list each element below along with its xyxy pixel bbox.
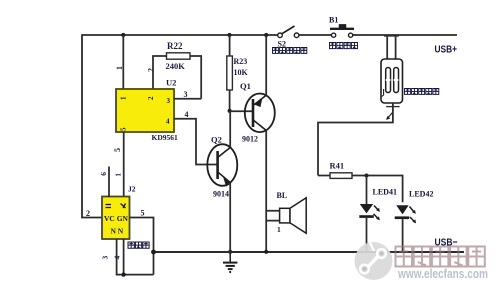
svg-text:5: 5 — [113, 148, 122, 152]
pin label 4 (relay bottom, rotated) — [113, 256, 122, 260]
pin label 4 inside U2 — [166, 118, 170, 126]
value label 10K — [234, 68, 249, 77]
wire Q1 emitter up to rail — [265, 35, 267, 95]
pin label 2 (relay left) — [86, 209, 90, 218]
svg-text:10K: 10K — [234, 68, 249, 77]
label USB+ — [435, 44, 458, 56]
pin label 1 (relay top, rotated) — [114, 173, 123, 177]
pushbutton B1 — [330, 24, 354, 37]
transistor Q2 9014 — [207, 144, 237, 186]
pin label 3 (relay bottom, rotated) — [101, 256, 110, 260]
node junction relay bottom — [121, 272, 125, 276]
svg-text:LED42: LED42 — [409, 190, 433, 199]
label VC GN inside relay — [104, 214, 129, 223]
speaker BL — [266, 198, 306, 234]
label U2 — [166, 78, 176, 88]
wire R22 right lead to U2 pin3 net — [190, 56, 201, 99]
pin label 3 inside U2 — [167, 97, 171, 105]
value label 9014 — [213, 190, 229, 199]
wire Q2 collector up to base node — [229, 111, 231, 148]
svg-text:5: 5 — [120, 127, 128, 131]
LED41 diode — [359, 176, 380, 252]
node junction R23 top — [227, 33, 231, 37]
wire relay pin5 to ground rail — [130, 218, 154, 275]
label R23 — [234, 57, 248, 66]
resistor R41 body — [318, 173, 367, 179]
lamp module inner bars — [382, 68, 399, 97]
wire U2 pin4 to Q2 base — [174, 119, 218, 165]
switch S2 contacts and blade — [278, 26, 299, 38]
svg-text:1: 1 — [114, 173, 123, 177]
label B1 mercury switch text (shuiyin kaiguan) — [330, 43, 358, 49]
svg-text:USB+: USB+ — [435, 44, 458, 56]
pin label 2 (U2 pin2, rotated) — [147, 68, 156, 72]
svg-text:9012: 9012 — [242, 135, 258, 144]
label N N inside relay — [111, 227, 124, 236]
label R22 — [167, 41, 183, 51]
svg-text:R41: R41 — [330, 161, 345, 171]
svg-text:R23: R23 — [234, 57, 248, 66]
pin label 5 (relay right) — [141, 209, 145, 218]
svg-text:2: 2 — [147, 68, 156, 72]
label Q2 — [211, 135, 222, 145]
pin label 1 (U2 pin1, rotated) — [115, 66, 124, 70]
svg-text:3: 3 — [167, 97, 171, 105]
svg-text:KD9561: KD9561 — [152, 133, 179, 142]
wire top supply rail — [82, 34, 457, 36]
svg-text:240K: 240K — [166, 61, 186, 71]
value label 240K — [166, 61, 186, 71]
label LED41 — [373, 188, 397, 197]
svg-text:1: 1 — [115, 66, 124, 70]
relay J2 body — [102, 197, 130, 240]
label BL — [277, 191, 288, 200]
svg-text:U2: U2 — [166, 78, 176, 88]
pin label 4 outside U2 — [185, 110, 189, 119]
svg-text:1: 1 — [277, 225, 281, 234]
pin label 1 inside U2 — [120, 96, 128, 100]
node junction speaker branch on rail — [264, 250, 268, 254]
LED42 diode — [395, 205, 416, 252]
svg-text:Q2: Q2 — [211, 135, 222, 145]
watermark text www.elecfans.com — [397, 267, 488, 281]
node junction R23 bottom / Q1 base / Q2 collector — [228, 109, 232, 113]
svg-text:2: 2 — [147, 96, 155, 100]
svg-text:B1: B1 — [329, 16, 338, 25]
wire to LED42 branch — [367, 176, 403, 203]
svg-text:R22: R22 — [167, 41, 183, 51]
svg-text:N N: N N — [111, 227, 124, 236]
label relay text (jidianqi) — [128, 242, 149, 248]
pin label 2 inside U2 — [147, 96, 155, 100]
pin marks inside relay top — [106, 204, 126, 209]
svg-text:BL: BL — [277, 191, 288, 200]
svg-text:1: 1 — [120, 96, 128, 100]
label S2 function text (baojing gongnengjian) — [273, 48, 307, 54]
wire U2 pin5 to relay J2 — [123, 132, 125, 197]
op-amp U2 IC KD9561 body — [116, 89, 174, 132]
svg-text:J2: J2 — [128, 185, 136, 194]
label B1 — [329, 16, 338, 25]
label R41 — [330, 161, 345, 171]
pin label 5 inside U2 — [120, 127, 128, 131]
svg-text:5: 5 — [141, 209, 145, 218]
svg-text:4: 4 — [185, 110, 189, 119]
wire R22 left lead to U2 pin2 — [153, 56, 167, 89]
label S2 — [278, 40, 286, 49]
wire Q1 base — [230, 110, 253, 112]
node junction rail start — [151, 250, 156, 255]
svg-text:VC GN: VC GN — [104, 214, 129, 223]
wire bottom ground rail — [153, 251, 464, 253]
svg-text:4: 4 — [113, 256, 122, 260]
lamp module leads from rail — [384, 35, 399, 59]
svg-text:3: 3 — [184, 90, 188, 99]
wire left border — [82, 34, 102, 217]
resistor R23 body — [227, 35, 233, 111]
watermark text dianzifashaoyou — [396, 247, 485, 267]
lamp module body — [381, 59, 403, 103]
svg-text:3: 3 — [101, 256, 110, 260]
node junction R41 / LED41 — [365, 174, 369, 178]
wire lamp bottom lead with connector tick — [318, 103, 400, 176]
svg-text:9014: 9014 — [213, 190, 229, 199]
wire Q1 collector down to speaker and ground rail — [265, 130, 267, 251]
svg-text:4: 4 — [166, 118, 170, 126]
svg-text:Q1: Q1 — [240, 81, 251, 91]
svg-text:6: 6 — [99, 172, 108, 176]
wire U2 pin1 drop — [122, 35, 124, 89]
label lamp function text (zhaoming gongnengjian) — [405, 89, 439, 95]
wire U2 pin3 to R23 bottom node — [174, 98, 202, 100]
pin label 5 (U2 pin5, rotated) — [113, 148, 122, 152]
label LED42 — [409, 190, 433, 199]
svg-text:LED41: LED41 — [373, 188, 397, 197]
value label 9012 — [242, 135, 258, 144]
wire relay bottom pins — [117, 239, 154, 275]
wire Q2 emitter down to ground rail — [229, 183, 231, 252]
watermark logo circle — [355, 242, 393, 280]
pin label 3 outside U2 — [184, 90, 188, 99]
resistor R22 body — [167, 53, 191, 59]
ground symbol — [223, 252, 237, 272]
pin label 1 (speaker) — [277, 225, 281, 234]
node junction Q1 emitter / S2 tap — [264, 33, 268, 37]
pin label 6 stub (relay) — [99, 167, 109, 198]
label J2 — [128, 185, 136, 194]
transistor Q1 9012 — [245, 94, 275, 133]
node junction top-left — [121, 33, 125, 37]
svg-text:2: 2 — [86, 209, 90, 218]
label Q1 — [240, 81, 251, 91]
node junction ground tap — [228, 250, 232, 254]
label KD9561 — [152, 133, 179, 142]
label USB- — [435, 237, 458, 249]
svg-text:www.elecfans.com: www.elecfans.com — [397, 267, 488, 281]
